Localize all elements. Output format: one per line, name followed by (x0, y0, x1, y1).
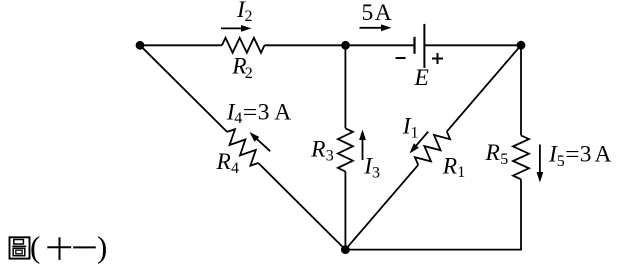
resistor R1 (415, 132, 450, 165)
svg-text:1: 1 (411, 124, 419, 141)
svg-text:E: E (414, 65, 429, 91)
svg-text:(: ( (30, 230, 40, 265)
svg-text:A: A (375, 0, 392, 26)
svg-text:A: A (274, 100, 291, 126)
svg-text:4: 4 (231, 160, 239, 177)
svg-text:1: 1 (457, 164, 465, 181)
svg-text:3: 3 (372, 164, 380, 181)
svg-text:): ) (97, 230, 107, 265)
battery plus sign (432, 53, 443, 64)
battery E positive plate (423, 24, 425, 68)
svg-text:R: R (442, 153, 457, 179)
current arrow I3 (359, 130, 366, 161)
battery E negative plate (413, 37, 415, 54)
svg-text:3: 3 (580, 141, 592, 167)
wire R3 to node D (344, 172, 346, 250)
wire node C down to R5 (520, 45, 522, 135)
svg-text:3: 3 (326, 147, 334, 164)
svg-text:R: R (216, 149, 231, 175)
svg-text:3: 3 (258, 100, 270, 126)
svg-text:5: 5 (557, 153, 565, 170)
wire R4 to node D (258, 163, 345, 250)
caption glyph 圖 (10, 237, 30, 258)
svg-text:2: 2 (245, 65, 253, 82)
svg-text:4: 4 (234, 110, 242, 127)
current arrow I2 (221, 25, 252, 32)
node A (136, 41, 145, 50)
node B (341, 41, 350, 50)
wire A to R4 diagonal (140, 45, 227, 132)
current arrow I5 (537, 145, 544, 183)
battery minus sign (396, 57, 406, 59)
current arrow I1 (410, 132, 429, 154)
wire top-left A to R2 (140, 44, 222, 46)
wire bottom node D to bottom-right corner (345, 249, 522, 251)
resistor R2 (222, 38, 265, 53)
wire R1 to node D (345, 165, 418, 250)
svg-text:R: R (310, 137, 325, 163)
svg-text:=: = (565, 141, 580, 167)
caption glyph 一 (73, 246, 96, 248)
current arrow 5A (360, 24, 392, 31)
svg-text:5: 5 (362, 0, 374, 26)
wire R5 to bottom-right corner (520, 179, 522, 249)
svg-text:5: 5 (500, 151, 508, 168)
wire node B to battery (346, 44, 415, 46)
resistor R3 (338, 128, 353, 171)
svg-text:R: R (485, 140, 500, 166)
current arrow I4 (250, 132, 271, 151)
wire node B down to R3 (344, 45, 346, 128)
svg-text:=: = (243, 100, 257, 126)
wire C to R1 diagonal (447, 45, 521, 131)
caption glyph 十 (47, 237, 71, 260)
wire R2 to node B (265, 44, 346, 46)
node C (517, 41, 526, 50)
wire battery to node C (424, 44, 521, 46)
resistor R5 (513, 135, 529, 179)
resistor R4 (227, 129, 258, 166)
svg-text:2: 2 (245, 8, 253, 25)
node D (341, 245, 350, 254)
svg-text:A: A (595, 141, 612, 167)
